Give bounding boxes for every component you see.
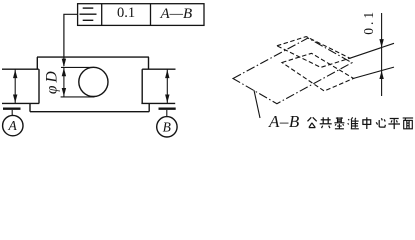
- right pin dimension line: [166, 69, 168, 103]
- svg-text:φD: φD: [44, 68, 61, 94]
- lower zone extension line: [354, 67, 395, 78]
- svg-text:A: A: [7, 118, 17, 133]
- chinese text zhong1 中: [363, 117, 371, 129]
- right pin bottom edge: [141, 102, 175, 104]
- right pin inner edge: [141, 69, 143, 103]
- svg-text:A—B: A—B: [159, 6, 192, 22]
- 0.1 dimension line: [381, 13, 383, 96]
- block bottom edge: [30, 111, 149, 113]
- leader arrowhead: [62, 59, 66, 67]
- chinese text ping2 平: [388, 119, 400, 130]
- 0.1 upper arrow: [379, 39, 383, 47]
- left pin inner edge: [38, 69, 40, 103]
- datum A connector: [11, 110, 13, 116]
- datum A circle: [3, 115, 23, 135]
- left pin bottom edge: [2, 102, 39, 104]
- datum B bar: [159, 107, 176, 109]
- right pin bottom arrow: [165, 95, 169, 103]
- upper zone extension line: [350, 43, 394, 58]
- chinese text zhun3 准: [348, 117, 359, 129]
- datum A bar: [3, 107, 21, 109]
- left pin top arrow: [13, 70, 17, 78]
- datum center plane parallelogram (dash-dot): [233, 38, 352, 104]
- frame divider 1: [101, 4, 103, 26]
- left pin dimension line: [14, 69, 16, 103]
- symmetry symbol: [80, 8, 97, 20]
- svg-text:0.1: 0.1: [361, 9, 376, 35]
- phiD bottom extension line: [61, 96, 95, 98]
- hole circle: [79, 67, 108, 96]
- chinese text mian4 面: [403, 118, 413, 129]
- leader to text: [254, 90, 260, 118]
- chinese text ji1 基: [334, 117, 344, 129]
- phiD dimension line: [63, 67, 65, 97]
- block right edge upper: [148, 57, 150, 69]
- upper tolerance plane (dashed): [277, 37, 350, 68]
- block top edge: [37, 56, 149, 58]
- left pin top edge: [2, 68, 39, 70]
- svg-text:B: B: [163, 119, 171, 134]
- 0.1 lower arrow: [379, 71, 383, 79]
- chinese text gong1 公: [308, 117, 317, 127]
- svg-text:0.1: 0.1: [117, 5, 135, 21]
- right pin top edge: [142, 68, 175, 70]
- chinese text gong4 共: [320, 117, 332, 128]
- svg-text:A–B: A–B: [268, 112, 300, 131]
- datum B connector: [166, 110, 168, 117]
- feature control frame: [78, 4, 204, 26]
- right pin top arrow: [165, 70, 169, 78]
- block left step: [29, 103, 31, 111]
- phiD top extension line: [61, 66, 95, 68]
- chinese text xin1 心: [376, 118, 385, 127]
- left pin bottom arrow: [13, 95, 17, 103]
- lower tolerance plane (dashed): [282, 53, 354, 91]
- frame divider 2: [150, 4, 152, 26]
- block right step: [148, 103, 150, 111]
- leader from frame: [64, 14, 78, 59]
- phiD top arrow: [62, 68, 66, 76]
- datum B circle: [157, 117, 177, 137]
- phiD bottom arrow: [62, 88, 66, 96]
- block left edge upper: [36, 57, 38, 69]
